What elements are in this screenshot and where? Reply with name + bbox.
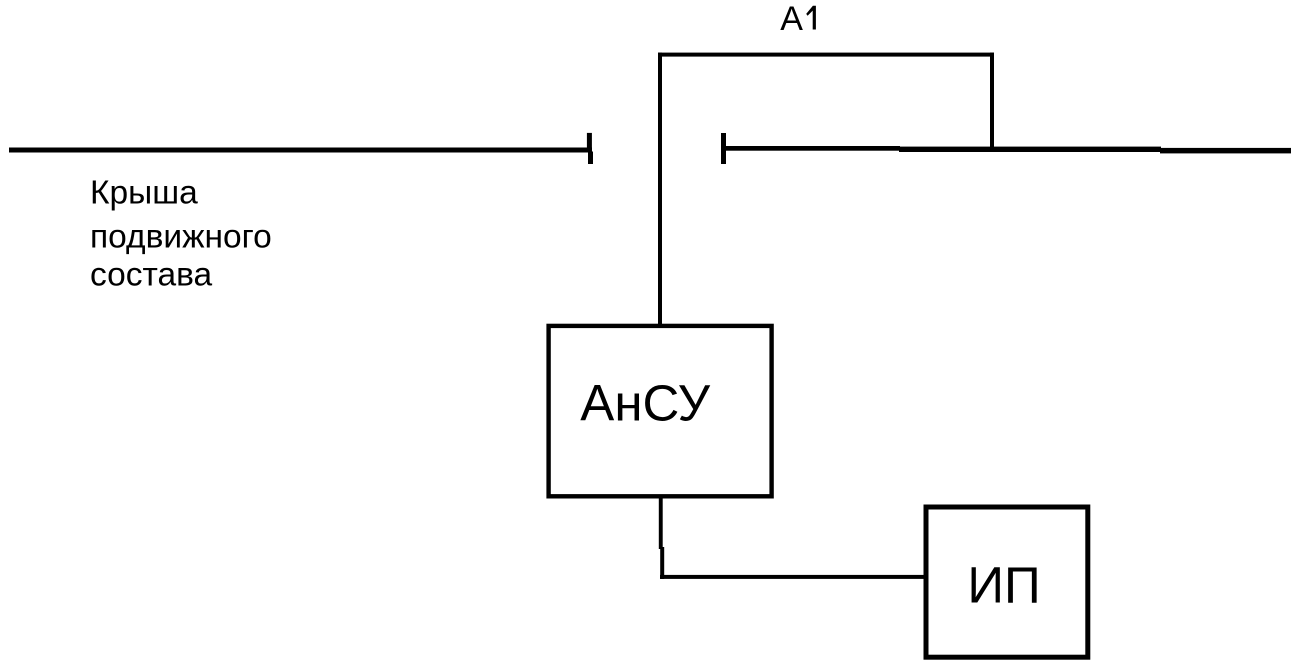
svg-text:состава: состава: [90, 257, 213, 294]
wire: antenna feed vertical (loop left side, down to AnSU box): [658, 53, 662, 325]
svg-text:АнСУ: АнСУ: [580, 375, 710, 432]
wire: down from AnSU, lower segment: [660, 547, 664, 579]
svg-text:подвижного: подвижного: [90, 219, 272, 256]
label A1 (digit 1 drawn Arial-style without foot): [806, 6, 816, 30]
wire: loop top horizontal: [658, 53, 994, 57]
block AnSU (АнСУ box): [549, 326, 772, 496]
wire: roof line right segment 3: [1160, 148, 1291, 154]
wire: loop right vertical: [990, 53, 994, 150]
wire: roof line left segment: [9, 148, 592, 153]
svg-text:ИП: ИП: [967, 557, 1040, 614]
svg-text:А: А: [780, 0, 803, 38]
wire: horizontal to IP box: [660, 575, 928, 579]
block IP (ИП box): [926, 507, 1088, 657]
wire: roof line right segment 2: [899, 147, 1161, 152]
wire: roof line right segment 1: [726, 146, 900, 151]
wire: down from AnSU, upper segment: [659, 497, 663, 549]
gap tick left (lower bar): [588, 152, 593, 165]
gap tick left (antenna input gap, upper bar): [587, 133, 592, 152]
svg-text:Крыша: Крыша: [90, 175, 198, 212]
gap tick right: [721, 133, 726, 164]
